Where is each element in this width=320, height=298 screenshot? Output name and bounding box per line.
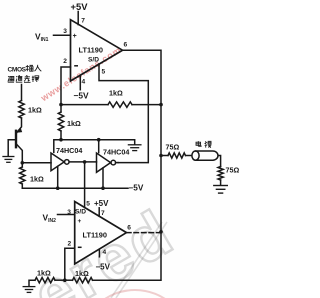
wire feedback loop bottom [93, 232, 162, 280]
svg-text:−5V: −5V [96, 263, 111, 272]
svg-text:CMOS: CMOS [8, 67, 27, 74]
label cable (chinese) [196, 141, 201, 146]
wire Vin2 to pin 3 U3 [58, 214, 75, 216]
resistor 1k feedback U1 [108, 102, 132, 107]
resistor 1k CMOS input [19, 101, 24, 119]
wire to transistor collector [17, 118, 22, 132]
svg-text:+5V: +5V [94, 199, 109, 208]
inverter U2b 74HC04 [97, 153, 111, 172]
wire pin 2 U3 to feedback node [65, 248, 75, 280]
svg-text:74HC04: 74HC04 [56, 146, 82, 155]
wire inverter1 output [69, 161, 96, 163]
resistor 1k to -5V rail [20, 167, 25, 184]
svg-text:+: + [73, 33, 77, 40]
resistor 75 ohm termination [218, 167, 223, 181]
svg-text:1kΩ: 1kΩ [75, 269, 89, 278]
wire node to 74HC04 input [22, 162, 51, 164]
op-amp U1 LT1190 [71, 20, 123, 81]
wire pin 4 U1 to -5V [79, 75, 81, 89]
wire +5V to pin 7 U1 [77, 12, 79, 25]
svg-text:+5V: +5V [71, 1, 89, 12]
resistor 1k gain U1 [58, 112, 63, 131]
svg-text:4: 4 [103, 249, 107, 256]
resistor 1k gain U3 [55, 279, 65, 281]
node dots [21, 103, 163, 282]
svg-text:2: 2 [63, 58, 67, 65]
svg-text:6: 6 [127, 225, 131, 232]
ground (bottom left) [23, 287, 35, 293]
svg-text:−5V: −5V [74, 91, 90, 101]
op-amp U3 LT1190 [75, 202, 127, 265]
wire pin 2 U1 to feedback node [61, 67, 71, 105]
watermark [80, 222, 190, 298]
wire inverter1 Vss to rail [57, 166, 59, 188]
wire pin 4 U3 to -5V [98, 249, 100, 257]
svg-text:2: 2 [68, 241, 72, 248]
svg-text:7: 7 [101, 210, 105, 217]
svg-text:LT1190: LT1190 [83, 231, 108, 240]
svg-text:75Ω: 75Ω [226, 166, 240, 175]
ground (transistor base) [3, 157, 14, 163]
transistor Q1 [15, 131, 17, 147]
svg-text:3: 3 [67, 209, 71, 216]
minus sign U1 [74, 65, 78, 67]
svg-text:4: 4 [82, 79, 86, 86]
wire CMOS select input [21, 85, 23, 101]
svg-text:5: 5 [86, 201, 90, 208]
resistor 1k feedback U3 [73, 278, 93, 283]
wire inverting node to R feedback [61, 104, 108, 106]
wire inverter2 Vss to rail [102, 168, 104, 188]
svg-text:1kΩ: 1kΩ [109, 89, 123, 98]
svg-text:1kΩ: 1kΩ [67, 119, 81, 128]
resistor 75 ohm series [168, 153, 186, 158]
svg-text:1kΩ: 1kΩ [30, 175, 44, 184]
wire -5V rail [22, 187, 128, 189]
svg-text:LT1190: LT1190 [79, 45, 104, 54]
wire Vin1 to pin 3 U1 [54, 34, 71, 36]
wire output pin 6 U1 to bus [123, 50, 162, 232]
svg-text:7: 7 [81, 18, 85, 25]
wire output pin 6 U3 (dashed) [127, 232, 161, 234]
wire inverter2 Vcc to ground rail [98, 140, 100, 153]
svg-text:6: 6 [124, 42, 128, 49]
cable symbol [196, 151, 218, 160]
ground mid [128, 145, 141, 151]
svg-text:5: 5 [102, 69, 106, 76]
svg-text:75Ω: 75Ω [166, 143, 180, 152]
svg-text:S/D: S/D [88, 57, 99, 64]
svg-text:+: + [78, 218, 82, 225]
wire bus tap to 75 ohm [161, 155, 168, 157]
wire ground rail mid [54, 140, 135, 153]
wire base to ground [8, 140, 15, 156]
wire pin 5 U1 S/D loop from 74HC04 output [99, 64, 148, 163]
inverter U2a 74HC04 [51, 153, 64, 171]
svg-text:74HC04: 74HC04 [103, 148, 129, 157]
svg-text:3: 3 [63, 28, 67, 35]
ground (75 ohm) [214, 186, 228, 194]
svg-text:S/D: S/D [75, 209, 86, 216]
wire inverter1 output to S/D pin 5 U3 [84, 162, 86, 208]
wire +5V to pin 7 U3 [98, 208, 100, 217]
svg-text:−5V: −5V [129, 184, 144, 193]
svg-text:1kΩ: 1kΩ [28, 106, 42, 115]
svg-text:1kΩ: 1kΩ [37, 269, 51, 278]
wire R feedback to output bus [132, 104, 161, 106]
minus sign U3 [78, 246, 82, 248]
